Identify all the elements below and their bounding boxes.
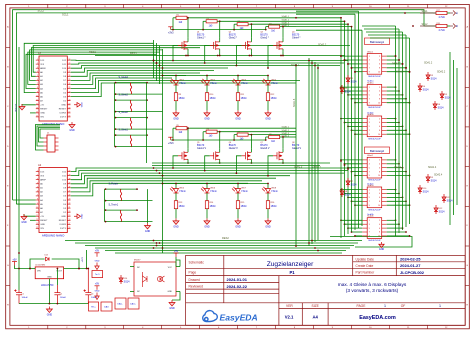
EasyEDA logo <box>203 311 218 322</box>
ground flag LED2 <box>204 110 210 116</box>
svg-text:SS14: SS14 <box>345 193 352 196</box>
svg-text:DAU: DAU <box>104 306 109 309</box>
svg-text:19: 19 <box>69 104 71 106</box>
svg-text:29: 29 <box>69 174 71 176</box>
svg-text:Gleis4 V: Gleis4 V <box>292 147 301 150</box>
svg-text:GND: GND <box>61 216 66 218</box>
LED LED6 <box>206 184 208 189</box>
svg-text:20: 20 <box>69 211 71 213</box>
svg-text:5: 5 <box>37 75 38 77</box>
svg-text:23: 23 <box>69 199 71 201</box>
connector Sub2b <box>367 218 382 239</box>
svg-text:Gleis2 V: Gleis2 V <box>229 147 238 150</box>
svg-text:Gleis1 *: Gleis1 * <box>197 37 205 40</box>
svg-text:R1: R1 <box>177 15 179 17</box>
svg-text:19: 19 <box>69 215 71 217</box>
svg-text:RES1: RES1 <box>89 50 96 54</box>
svg-text:2: 2 <box>379 87 380 89</box>
svg-text:S_Test+1: S_Test+1 <box>109 204 119 207</box>
diode D8 SS14 <box>340 188 344 197</box>
svg-text:Gleis4 +: Gleis4 + <box>394 166 403 169</box>
regulator U2 LD1117V50 <box>35 267 63 279</box>
svg-text:SDA1.1: SDA1.1 <box>282 15 290 18</box>
svg-text:7: 7 <box>369 68 370 70</box>
svg-text:D13: D13 <box>45 255 48 257</box>
svg-text:ARDUINO NANO: ARDUINO NANO <box>42 234 65 238</box>
power flag +3V3 <box>168 27 173 30</box>
svg-text:8: 8 <box>379 130 380 132</box>
svg-text:30: 30 <box>69 170 71 172</box>
svg-text:3: 3 <box>369 60 370 62</box>
svg-text:10: 10 <box>36 207 38 209</box>
resistor R17 SCL1 pullup <box>436 11 447 14</box>
svg-text:D1/TX: D1/TX <box>60 228 67 230</box>
svg-text:SIZE: SIZE <box>312 304 320 308</box>
svg-text:SDA2.1: SDA2.1 <box>282 126 290 129</box>
svg-text:3: 3 <box>37 178 38 180</box>
svg-text:GND+5V: GND+5V <box>16 103 18 112</box>
svg-text:8: 8 <box>379 68 380 70</box>
svg-text:1: 1 <box>369 118 370 120</box>
power flag +5V opto <box>174 253 179 257</box>
wire gate Q1 <box>173 45 178 60</box>
svg-text:5: 5 <box>369 228 370 230</box>
svg-text:D0/RX: D0/RX <box>60 113 67 115</box>
ground flag opto <box>169 300 175 306</box>
svg-text:150Ω: 150Ω <box>179 97 185 100</box>
svg-text:7: 7 <box>37 83 38 85</box>
svg-text:4.7kΩ: 4.7kΩ <box>439 17 445 19</box>
svg-text:G: G <box>7 265 9 267</box>
svg-text:VIN: VIN <box>40 117 44 119</box>
label Bahnsteig2 box <box>365 147 390 154</box>
resistor R18 SCL2 pullup <box>436 24 447 27</box>
wire mid bundle right of center <box>309 58 318 246</box>
svg-text:Gleis3 +: Gleis3 + <box>312 165 321 168</box>
wire drain Q7 <box>250 135 252 149</box>
wire right-of-center verticals <box>296 11 362 238</box>
svg-text:SH/DIL2V-10P: SH/DIL2V-10P <box>368 180 381 182</box>
svg-text:S_Gleis1: S_Gleis1 <box>119 130 129 132</box>
wire led-resistor LED2 <box>206 85 208 93</box>
svg-text:14: 14 <box>36 112 38 114</box>
svg-text:29: 29 <box>69 63 71 65</box>
resistor R4 <box>269 25 280 28</box>
wire resistor-gnd R13 <box>175 209 177 219</box>
svg-text:Y3mm: Y3mm <box>241 190 248 193</box>
svg-text:28: 28 <box>69 178 71 180</box>
LED LED4 <box>267 76 269 81</box>
wire +3V3 rail <box>171 18 266 30</box>
svg-text:A2: A2 <box>38 163 42 167</box>
wire net SDA2.3 <box>251 134 296 136</box>
svg-text:SDA1.5: SDA1.5 <box>294 165 303 168</box>
svg-text:P1: P1 <box>289 270 295 275</box>
svg-text:24: 24 <box>69 83 71 85</box>
svg-text:5: 5 <box>369 197 370 199</box>
svg-text:A4: A4 <box>456 25 459 27</box>
wire resistor-gnd R11 <box>237 101 239 111</box>
svg-text:(3 vorwärts, 3 rückwärts): (3 vorwärts, 3 rückwärts) <box>346 288 399 294</box>
diode D11 SS14 <box>442 194 446 203</box>
port A5 flag <box>453 11 456 16</box>
resistor R3 <box>237 23 248 26</box>
transistor Q1 <box>178 41 188 50</box>
wire power input rail <box>15 266 32 269</box>
testpoint box TP3 <box>101 302 112 311</box>
wire net SCL2 <box>13 10 433 200</box>
resistor R15 <box>236 201 239 209</box>
svg-text:12: 12 <box>36 104 38 106</box>
svg-text:4: 4 <box>379 193 380 195</box>
svg-text:GND: GND <box>379 248 385 251</box>
ground flag A1 left <box>19 104 25 110</box>
svg-text:150Ω: 150Ω <box>271 97 277 100</box>
svg-text:C1: C1 <box>22 294 24 296</box>
svg-text:9: 9 <box>37 203 38 205</box>
svg-text:GND: GND <box>40 113 45 115</box>
svg-text:20: 20 <box>69 99 71 101</box>
ground flag switches <box>145 223 151 229</box>
LED LED2 <box>206 76 208 81</box>
svg-text:9: 9 <box>369 205 370 207</box>
ground flag LED5 <box>173 218 179 224</box>
wire net SDA1.3 <box>251 23 296 25</box>
resistor R1 <box>176 16 187 19</box>
svg-text:R17: R17 <box>437 10 440 12</box>
wire source Q4 <box>282 52 284 56</box>
svg-text:VIN: VIN <box>40 228 44 230</box>
svg-text:1: 1 <box>369 87 370 89</box>
svg-text:SCL1: SCL1 <box>422 10 429 13</box>
svg-text:1: 1 <box>439 304 441 308</box>
svg-text:17: 17 <box>69 112 71 114</box>
wire center vertical bundle <box>147 40 163 253</box>
ground flag connectors <box>379 242 384 247</box>
svg-text:S_Gleis2: S_Gleis2 <box>119 112 129 114</box>
svg-text:GND: GND <box>81 213 83 218</box>
svg-text:+5V: +5V <box>12 258 17 261</box>
svg-text:4: 4 <box>379 91 380 93</box>
svg-text:VIN: VIN <box>37 271 41 273</box>
wire gate Q4 <box>268 45 273 68</box>
wire +3V3 rail <box>171 128 266 140</box>
svg-text:1: 1 <box>369 220 370 222</box>
svg-text:3: 3 <box>369 91 370 93</box>
svg-text:9: 9 <box>369 71 370 73</box>
svg-text:A5: A5 <box>456 12 459 14</box>
svg-text:10: 10 <box>378 134 380 136</box>
capacitor C2 100nF <box>54 285 60 304</box>
svg-text:12: 12 <box>36 215 38 217</box>
resistor R2 <box>206 20 217 23</box>
svg-text:2024-01-27: 2024-01-27 <box>400 263 421 268</box>
svg-text:G: G <box>466 265 468 267</box>
svg-text:GND: GND <box>61 105 66 107</box>
opto input boxes <box>115 298 126 309</box>
svg-text:13: 13 <box>36 219 38 221</box>
wire net SDA2.4 <box>283 136 296 138</box>
svg-text:5: 5 <box>369 95 370 97</box>
svg-text:D0/RX: D0/RX <box>60 224 67 226</box>
svg-text:5: 5 <box>369 167 370 169</box>
svg-text:Create Date: Create Date <box>356 264 374 268</box>
svg-text:6: 6 <box>379 64 380 66</box>
svg-text:4: 4 <box>379 122 380 124</box>
svg-text:27: 27 <box>69 182 71 184</box>
svg-text:9: 9 <box>369 236 370 238</box>
wire opto pins <box>130 266 134 268</box>
svg-text:SS14: SS14 <box>445 96 452 99</box>
svg-text:10: 10 <box>378 102 380 104</box>
svg-text:1: 1 <box>369 189 370 191</box>
LED LED8 <box>267 184 269 189</box>
svg-text:R18: R18 <box>437 23 440 25</box>
svg-text:SS14: SS14 <box>423 88 430 91</box>
LED LED7 <box>237 184 239 189</box>
diode D7 SS14 <box>346 178 350 187</box>
svg-text:Reviewed: Reviewed <box>189 285 204 289</box>
LED LED5 <box>175 184 177 189</box>
svg-text:Bahnsteig2: Bahnsteig2 <box>370 149 384 153</box>
wire switch gnd rail <box>147 189 149 223</box>
wire drain Q1 <box>187 18 189 38</box>
wire connector left pins <box>340 55 362 237</box>
svg-text:SS14: SS14 <box>431 77 438 80</box>
svg-text:SDA2.2: SDA2.2 <box>437 70 446 73</box>
svg-text:+5V: +5V <box>174 250 179 253</box>
ground flag A2 left <box>21 214 27 220</box>
title block frame <box>186 255 466 325</box>
svg-text:1: 1 <box>37 59 38 61</box>
svg-text:6: 6 <box>379 126 380 128</box>
svg-text:16: 16 <box>69 116 71 118</box>
wire led-resistor LED8 <box>267 193 269 201</box>
transistor Q7 <box>241 151 251 160</box>
svg-text:22: 22 <box>69 91 71 93</box>
svg-text:Part Number: Part Number <box>356 270 376 274</box>
svg-text:5: 5 <box>369 126 370 128</box>
wire J1 loops <box>36 125 61 151</box>
connector Sub2o <box>367 187 382 208</box>
svg-text:7: 7 <box>369 171 370 173</box>
svg-text:25: 25 <box>69 79 71 81</box>
svg-text:4: 4 <box>379 224 380 226</box>
wire drain Q3 <box>250 24 252 38</box>
svg-text:EasyEDA: EasyEDA <box>220 313 258 323</box>
svg-text:GND: GND <box>173 225 179 228</box>
svg-text:2: 2 <box>379 56 380 58</box>
ground port A1 right <box>74 103 81 107</box>
port A4 flag <box>453 24 456 29</box>
svg-text:1: 1 <box>369 56 370 58</box>
svg-text:13: 13 <box>36 108 38 110</box>
svg-text:6: 6 <box>379 95 380 97</box>
arduino nano A2 body <box>39 168 67 233</box>
svg-text:2: 2 <box>37 174 38 176</box>
ground flag LED4 <box>265 110 271 116</box>
svg-text:9: 9 <box>37 91 38 93</box>
svg-text:+3V3: +3V3 <box>82 257 84 263</box>
svg-text:6: 6 <box>379 167 380 169</box>
svg-text:11: 11 <box>36 211 38 213</box>
svg-text:SCL2: SCL2 <box>38 8 45 12</box>
svg-text:Wan1: Wan1 <box>367 51 373 53</box>
svg-text:+3V3: +3V3 <box>168 142 174 145</box>
power flag +5V testpoint column 2 <box>95 286 100 290</box>
label Bahnsteig1 box <box>365 38 390 45</box>
svg-text:RESET: RESET <box>59 220 67 222</box>
svg-text:RES2: RES2 <box>222 236 229 240</box>
svg-text:10: 10 <box>378 236 380 238</box>
svg-text:Y3mm: Y3mm <box>179 190 186 193</box>
svg-text:S_Gleis4: S_Gleis4 <box>119 77 129 79</box>
resistor R16 <box>266 201 269 209</box>
svg-text:150Ω: 150Ω <box>210 97 216 100</box>
svg-text:18: 18 <box>69 108 71 110</box>
svg-text:SDA1.4: SDA1.4 <box>428 166 437 169</box>
svg-text:24: 24 <box>69 195 71 197</box>
svg-text:3: 3 <box>37 67 38 69</box>
diode D4 SS14 <box>418 83 422 92</box>
connector Sub1o <box>367 85 382 106</box>
diode D9 SS14 <box>426 174 430 183</box>
transistor Q3 <box>241 41 251 50</box>
svg-text:23: 23 <box>69 87 71 89</box>
wire drain Q2 <box>219 21 221 38</box>
svg-text:SH/DIL2V-10P: SH/DIL2V-10P <box>368 107 381 109</box>
svg-text:GND: GND <box>47 314 53 317</box>
svg-text:10: 10 <box>36 95 38 97</box>
svg-text:Wan2: Wan2 <box>367 155 373 157</box>
svg-text:Gleis1 *: Gleis1 * <box>392 62 400 65</box>
wire resistor-gnd R10 <box>206 101 208 111</box>
svg-text:GND: GND <box>204 117 210 120</box>
wire led-resistor LED4 <box>267 85 269 93</box>
resistor R7 <box>237 133 248 136</box>
svg-text:GND: GND <box>21 221 27 224</box>
svg-text:7: 7 <box>37 195 38 197</box>
wire RES1 net <box>95 55 345 57</box>
svg-text:RESET: RESET <box>40 220 48 222</box>
wire source Q3 <box>250 52 252 56</box>
connector Sub1b <box>367 116 382 137</box>
capacitor C3 100uF <box>84 269 92 304</box>
wire SCL1 right <box>450 12 453 14</box>
wire SCL2 right <box>450 25 453 27</box>
svg-text:3: 3 <box>369 224 370 226</box>
wire SCL1 stub dark <box>420 12 436 14</box>
svg-text:R6: R6 <box>207 129 209 131</box>
svg-text:4.7kΩ: 4.7kΩ <box>439 30 445 32</box>
svg-text:10: 10 <box>378 205 380 207</box>
svg-text:GND: GND <box>173 117 179 120</box>
svg-text:GND: GND <box>69 129 75 132</box>
svg-text:2024-01-01: 2024-01-01 <box>227 277 248 282</box>
resistor R8 <box>269 135 280 138</box>
svg-text:V2.1: V2.1 <box>285 315 294 320</box>
svg-text:S_Rotate: S_Rotate <box>109 183 119 186</box>
svg-text:4: 4 <box>37 182 38 184</box>
resistor R6 <box>206 130 217 133</box>
wire gate Q5 <box>173 156 178 168</box>
wire resistor-gnd R9 <box>175 101 177 111</box>
svg-text:10: 10 <box>378 71 380 73</box>
svg-text:10: 10 <box>378 175 380 177</box>
svg-text:Sub2o: Sub2o <box>367 185 374 187</box>
svg-text:RESET: RESET <box>59 109 67 111</box>
wire drain Q5 <box>187 128 189 148</box>
svg-text:Y3mm: Y3mm <box>271 190 278 193</box>
svg-text:R2: R2 <box>207 18 209 20</box>
wire left long rail to power section <box>18 47 20 269</box>
svg-text:Gleis3 V: Gleis3 V <box>260 147 269 150</box>
svg-text:S_Gleis3: S_Gleis3 <box>119 95 129 97</box>
svg-text:GND: GND <box>265 225 271 228</box>
svg-text:GND: GND <box>95 291 100 293</box>
svg-text:C3: C3 <box>91 294 93 296</box>
svg-text:25: 25 <box>69 191 71 193</box>
ground port A2 right <box>74 214 81 218</box>
svg-text:17: 17 <box>69 223 71 225</box>
svg-text:C2: C2 <box>60 294 62 296</box>
resistor R5 <box>176 127 187 130</box>
svg-text:150Ω: 150Ω <box>179 205 185 208</box>
svg-text:SS14: SS14 <box>351 80 358 83</box>
wire led-resistor LED3 <box>237 85 239 93</box>
svg-text:27: 27 <box>69 71 71 73</box>
wire net SDA1.1 <box>190 17 296 19</box>
svg-text:8: 8 <box>379 201 380 203</box>
svg-text:7: 7 <box>369 130 370 132</box>
svg-text:PAGE: PAGE <box>357 304 367 308</box>
ground flag LED1 <box>173 110 179 116</box>
wire gate Q6 <box>205 156 210 171</box>
svg-text:4: 4 <box>37 71 38 73</box>
wire led-resistor LED6 <box>206 193 208 201</box>
wire source Q7 <box>250 161 252 164</box>
svg-text:RES1: RES1 <box>130 51 137 55</box>
svg-text:SS14: SS14 <box>351 183 358 186</box>
LED LED3 <box>237 76 239 81</box>
wire source Q6 <box>219 161 221 164</box>
wire +5V0 stub up <box>86 250 88 269</box>
svg-text:Y3mm: Y3mm <box>210 190 217 193</box>
wire connector return loop <box>330 237 412 248</box>
capacitor C1 100uF <box>14 289 22 303</box>
svg-text:+5V: +5V <box>95 250 100 253</box>
diode D1 SS14 <box>346 75 350 84</box>
wire net SDA2.2 <box>220 131 296 133</box>
svg-text:100nF: 100nF <box>60 297 67 299</box>
svg-text:+5V: +5V <box>40 216 44 218</box>
svg-text:DAU+: DAU+ <box>130 303 136 306</box>
wire connector right pins <box>387 55 411 237</box>
svg-text:Gleis1 V: Gleis1 V <box>197 147 206 150</box>
diode D13 across regulator <box>46 257 49 261</box>
transistor Q2 <box>210 41 220 50</box>
transistor Q4 <box>273 41 283 50</box>
svg-text:9: 9 <box>369 175 370 177</box>
power flag +3V3 <box>168 137 173 140</box>
svg-text:2024-02-22: 2024-02-22 <box>227 284 248 289</box>
wire A1 left pin loops <box>24 43 350 92</box>
transistor Q6 <box>210 151 220 160</box>
optocoupler U3 <box>134 262 176 296</box>
svg-text:SDA2.4: SDA2.4 <box>434 174 443 177</box>
wire source Q1 <box>187 52 189 56</box>
svg-text:6: 6 <box>37 191 38 193</box>
